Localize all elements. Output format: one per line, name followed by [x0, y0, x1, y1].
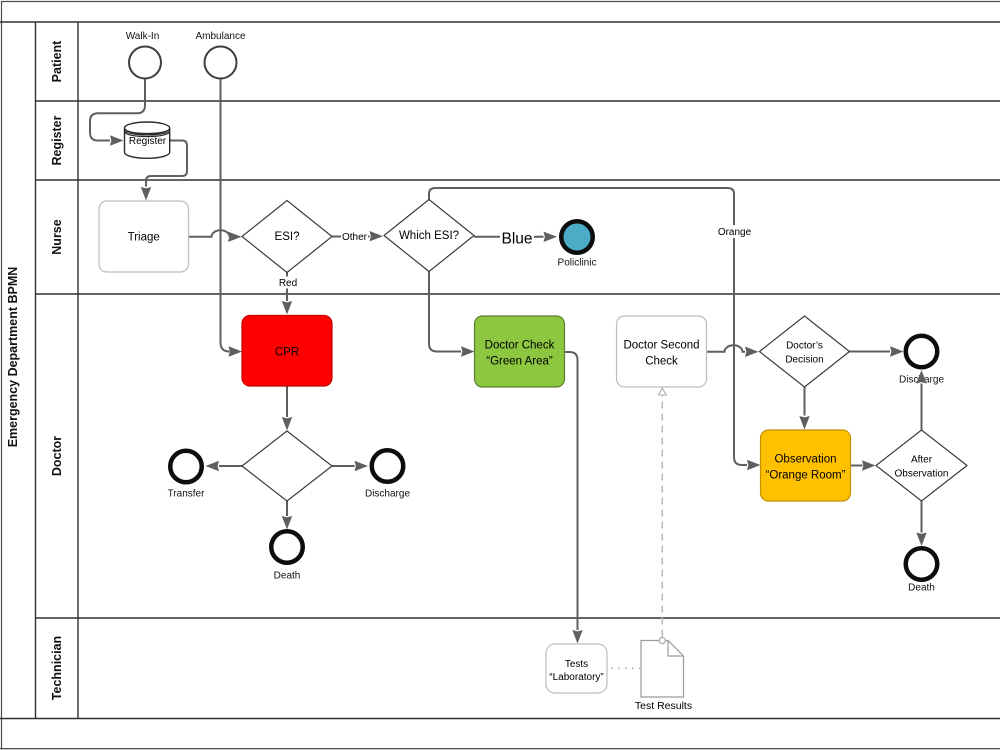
gateway Doctors Decision [760, 316, 850, 387]
flow Observation to After Observation [851, 460, 876, 470]
flow ESI to Which ESI (Other) [332, 231, 383, 241]
svg-text:Triage: Triage [128, 232, 160, 244]
lane label Technician [50, 636, 64, 700]
end event Policlinic [558, 221, 597, 268]
svg-text:After: After [911, 455, 933, 466]
gateway After Observation [876, 430, 967, 501]
svg-text:Walk-In: Walk-In [126, 31, 160, 42]
svg-text:Death: Death [274, 571, 301, 582]
lane divider Doctor/Technician [36, 617, 1000, 619]
svg-text:Patient: Patient [50, 40, 64, 83]
flow After Observation to Discharge (up) [916, 370, 926, 430]
flow gateway to Death [282, 501, 292, 530]
svg-text:Orange: Orange [718, 227, 752, 238]
end event Discharge (doctor lane) [899, 336, 944, 386]
svg-text:Tests: Tests [565, 659, 588, 670]
svg-text:Which ESI?: Which ESI? [399, 230, 459, 242]
svg-text:Nurse: Nurse [50, 219, 64, 254]
end event Death (observation branch) [906, 548, 938, 593]
lane divider Register/Nurse [36, 179, 1000, 181]
svg-text:Doctor’s: Doctor’s [786, 341, 823, 352]
svg-text:Register: Register [129, 136, 167, 147]
label Other [341, 230, 368, 243]
task Doctor Second Check [617, 316, 707, 387]
svg-text:Check: Check [645, 356, 678, 368]
svg-text:“Orange Room”: “Orange Room” [766, 470, 846, 482]
flow Doctor Second Check to Doctors Decision (with hop) [707, 345, 759, 357]
start event Ambulance [195, 31, 245, 79]
svg-text:Other: Other [342, 232, 368, 243]
flow Which ESI to Doctor Check [429, 272, 475, 357]
end event Discharge (CPR branch) [365, 450, 410, 499]
task Triage [99, 201, 189, 272]
svg-text:Doctor Second: Doctor Second [623, 340, 699, 352]
label Blue [500, 229, 534, 248]
end event Death (CPR branch) [271, 531, 303, 581]
lane label Nurse [50, 219, 64, 254]
label Orange [717, 225, 753, 238]
flow After Observation to Death [916, 501, 926, 546]
svg-text:Observation: Observation [774, 454, 836, 466]
svg-text:Decision: Decision [785, 355, 823, 366]
lane label Register [50, 115, 64, 165]
end event Transfer [168, 451, 206, 500]
flow Doctor Check to Tests [565, 352, 583, 644]
lane label Patient [50, 40, 64, 83]
gateway Which ESI? [384, 200, 474, 272]
svg-text:Doctor Check: Doctor Check [485, 340, 555, 352]
svg-text:Transfer: Transfer [168, 489, 206, 500]
association Test Results to Doctor Second Check (dashed) [658, 388, 666, 637]
gateway after CPR [242, 431, 332, 501]
svg-text:“Green Area”: “Green Area” [486, 356, 553, 368]
data object Test Results [635, 637, 692, 712]
flow gateway to Discharge [332, 461, 368, 471]
flow ESI to CPR (Red) [282, 273, 292, 315]
pool title [6, 267, 20, 448]
svg-text:Observation: Observation [895, 469, 949, 480]
start event Walk-In [126, 31, 161, 79]
svg-text:CPR: CPR [275, 347, 299, 359]
task Observation Orange Room [761, 430, 851, 501]
svg-text:Ambulance: Ambulance [195, 31, 245, 42]
svg-text:Register: Register [50, 115, 64, 165]
svg-text:Discharge: Discharge [365, 489, 410, 500]
svg-text:Technician: Technician [50, 636, 64, 700]
gateway ESI? [242, 201, 332, 273]
svg-text:Death: Death [908, 583, 935, 594]
lane label Doctor [50, 436, 64, 476]
svg-text:Emergency Department BPMN: Emergency Department BPMN [6, 267, 20, 448]
svg-text:ESI?: ESI? [275, 231, 300, 243]
svg-text:Doctor: Doctor [50, 436, 64, 476]
label Red [278, 277, 299, 290]
flow Which ESI to Observation (Orange) [429, 188, 761, 470]
svg-text:Red: Red [279, 278, 297, 289]
svg-text:Blue: Blue [501, 231, 532, 248]
svg-text:“Laboratory”: “Laboratory” [549, 672, 603, 683]
lane divider Nurse/Doctor [36, 293, 1000, 295]
svg-text:Test Results: Test Results [635, 700, 692, 712]
svg-text:Policlinic: Policlinic [558, 258, 597, 269]
association Tests to Test Results (dotted) [611, 667, 640, 669]
flow Doctors Decision to Observation [799, 387, 809, 430]
flow Triage to ESI gateway (with hop) [189, 230, 242, 242]
flow Which ESI to Policlinic (Blue) [474, 232, 557, 242]
flow Ambulance to CPR [221, 79, 243, 357]
data store Register [125, 122, 170, 158]
task CPR [242, 316, 332, 387]
flow CPR to gateway [282, 386, 292, 431]
flow Register store to Triage [141, 141, 187, 201]
flow Doctors Decision to Discharge [850, 346, 904, 356]
flow Walk-In to Register store [90, 79, 145, 146]
task Tests Laboratory [546, 644, 607, 693]
flow gateway to Transfer [206, 461, 243, 471]
lane divider Patient/Register [36, 100, 1000, 102]
task Doctor Check Green Area [475, 316, 565, 387]
